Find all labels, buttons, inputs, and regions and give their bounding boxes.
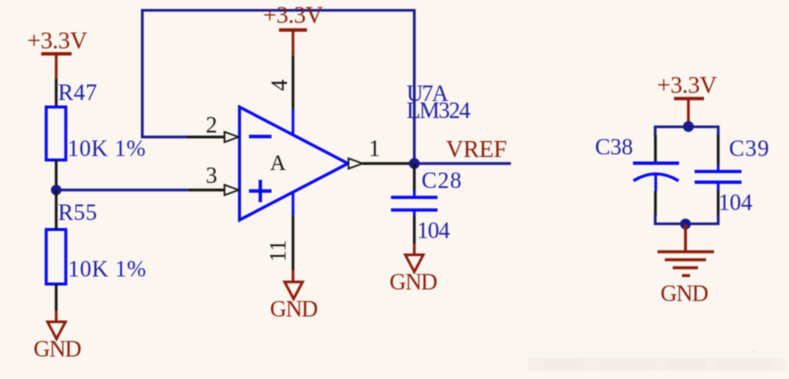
ground earth symbol at cap pair (658, 224, 715, 306)
power +3.3V at R47 top (27, 29, 88, 80)
wire node to C28 (413, 164, 416, 191)
node junction dot at divider midpoint (51, 185, 62, 196)
svg-text:C39: C39 (729, 136, 769, 161)
wire pin 1 output (363, 162, 415, 165)
op-amp U7A LM324 (240, 107, 349, 220)
wire pin 11 (292, 215, 295, 270)
wire R47 bottom to node (55, 160, 58, 190)
wire VREF net (414, 162, 511, 165)
pin stub 11 ground (292, 192, 295, 215)
wire pin 3 (188, 189, 225, 192)
pin stub 4 power (292, 109, 295, 136)
wire bottom rail of cap pair (655, 214, 718, 224)
svg-text:C28: C28 (422, 168, 462, 193)
pin 1 output arrowhead (349, 158, 363, 168)
node top junction dot of cap pair (683, 121, 694, 132)
wire C28 to ground (413, 217, 416, 244)
svg-text:GND: GND (34, 337, 82, 362)
svg-text:A: A (270, 150, 286, 175)
power +3.3V at op-amp pin 4 (263, 3, 324, 55)
wire top rail of cap pair (655, 127, 718, 137)
svg-text:GND: GND (661, 281, 709, 306)
svg-text:GND: GND (270, 297, 318, 322)
svg-text:LM324: LM324 (407, 98, 472, 123)
minus symbol inverting input (249, 135, 272, 138)
svg-text:104: 104 (417, 218, 451, 243)
wire C38 bottom pin (654, 191, 657, 216)
wire pin 4 (292, 55, 295, 109)
power +3.3V at decoupling caps (657, 73, 718, 123)
pin 3 arrowhead (225, 185, 239, 195)
ground GND below pin 11 (270, 270, 318, 322)
watermark (528, 350, 786, 371)
svg-text:+3.3V: +3.3V (263, 3, 324, 29)
ground GND below R55 (34, 311, 82, 362)
resistor R55 (46, 200, 97, 284)
svg-text:4: 4 (267, 79, 292, 91)
svg-text:R47: R47 (58, 80, 97, 105)
plus symbol non-inverting input (249, 189, 272, 192)
wire R55 top to node (55, 190, 58, 230)
capacitor C28 (391, 168, 462, 217)
wire pin 2 (187, 136, 225, 139)
wire feedback net from output to pin 2 (142, 10, 414, 163)
ground GND below C28 (390, 244, 438, 295)
wire R55 bottom to ground (55, 284, 58, 311)
svg-text:3: 3 (206, 163, 218, 188)
capacitor C38 (595, 135, 679, 192)
wire C38 top pin (654, 135, 657, 162)
wire C39 top pin (717, 135, 720, 165)
wire node to pin 3 (net) (56, 189, 188, 192)
svg-text:11: 11 (266, 240, 291, 262)
svg-text:10K 1%: 10K 1% (68, 136, 146, 161)
node bottom junction dot of cap pair (680, 219, 691, 230)
svg-text:R55: R55 (58, 200, 97, 225)
svg-text:C38: C38 (595, 135, 633, 160)
svg-text:+3.3V: +3.3V (27, 29, 88, 55)
svg-text:+3.3V: +3.3V (657, 73, 718, 99)
wire pin of R47 top (55, 79, 58, 107)
svg-text:1: 1 (369, 136, 381, 161)
svg-text:104: 104 (718, 190, 753, 215)
resistor R47 (46, 80, 97, 160)
wire C39 bottom pin (717, 190, 720, 216)
capacitor C39 (695, 136, 769, 190)
pin 2 arrowhead (225, 132, 239, 142)
svg-text:2: 2 (206, 113, 218, 138)
node output junction dot (409, 158, 420, 169)
svg-text:10K 1%: 10K 1% (68, 257, 146, 282)
svg-text:VREF: VREF (446, 137, 507, 163)
svg-text:GND: GND (390, 270, 438, 295)
